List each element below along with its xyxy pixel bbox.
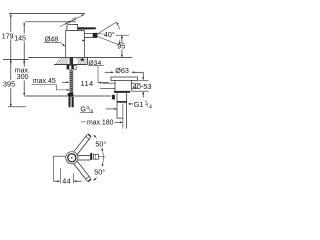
- lever tilt diagonal: [60, 15, 84, 27]
- label O34 underlined: [88, 60, 104, 67]
- dimension 145/max300 line: [23, 22, 25, 95]
- drain flange: [100, 77, 140, 91]
- plan spout rotated down: [74, 161, 91, 182]
- plan 0deg ray: [98, 156, 105, 158]
- 40 deg arc arrows: [117, 22, 120, 29]
- plan body ring: [68, 154, 76, 162]
- svg-text:395: 395: [3, 80, 15, 89]
- dimension 114: [62, 66, 109, 84]
- hose stems: [69, 97, 71, 107]
- pop-up rod boss: [112, 95, 115, 100]
- deck hatch left: [55, 58, 69, 64]
- label max180: [81, 120, 123, 127]
- svg-text:max.45: max.45: [33, 78, 56, 85]
- drain tailpipe: [117, 93, 127, 129]
- label G3/8: [80, 104, 117, 113]
- plan aerator outline: [93, 154, 98, 159]
- svg-text:40-53: 40-53: [133, 82, 152, 91]
- svg-text:Ø63: Ø63: [115, 66, 129, 75]
- svg-text:max.180: max.180: [87, 120, 114, 127]
- drain locknut: [114, 91, 130, 93]
- lever arm: [78, 27, 96, 29]
- deck right edge: [87, 57, 89, 64]
- pop-up rod through deck: [81, 59, 84, 61]
- hose end fitting: [67, 93, 73, 97]
- spout tube: [84, 33, 92, 37]
- dimension 95: [116, 35, 129, 57]
- drain body through deck: [115, 80, 132, 91]
- svg-text:114: 114: [81, 79, 94, 88]
- label G1 1/4: [128, 100, 152, 111]
- label max45 underlined: [32, 78, 70, 90]
- plan spout horizontal: [78, 156, 90, 160]
- mounting nut: [67, 65, 74, 70]
- left datum extension line: [3, 59, 29, 61]
- lever knob: [67, 25, 78, 31]
- plan spout rotated up: [74, 134, 91, 155]
- plan body outer circle: [66, 152, 78, 164]
- 40 deg horizontal ext: [97, 33, 116, 35]
- svg-text:G1: G1: [134, 100, 144, 109]
- dimension 179/395 line: [10, 14, 12, 106]
- deck bottom line: [54, 63, 88, 65]
- extension line (145 ref): [25, 21, 76, 23]
- deck hatch right: [77, 58, 87, 64]
- drain flange dimension O63: [105, 71, 144, 73]
- pipe thread band: [117, 101, 127, 103]
- svg-text:50°: 50°: [95, 139, 106, 148]
- svg-text:145: 145: [14, 36, 26, 43]
- aerator: [93, 33, 98, 38]
- dimension 44: [53, 156, 81, 183]
- svg-text:8: 8: [91, 109, 94, 114]
- threaded rod: [70, 70, 74, 93]
- plan center dot: [71, 157, 73, 159]
- extension line top (179 ref): [9, 13, 85, 15]
- svg-text:300: 300: [17, 74, 29, 81]
- label O48 underlined: [44, 35, 65, 47]
- deck top line: [28, 56, 132, 58]
- svg-text:4: 4: [149, 104, 152, 110]
- shank through deck: [70, 57, 74, 64]
- hose-end extension line: [8, 106, 26, 108]
- plan aerator cap: [90, 153, 92, 160]
- dimension 40-53: [132, 72, 149, 97]
- spout base mark: [82, 40, 84, 41]
- long reference line y96: [25, 95, 111, 97]
- svg-text:95: 95: [117, 42, 125, 51]
- svg-text:44: 44: [62, 177, 71, 186]
- faucet body: [66, 30, 85, 57]
- svg-text:40°: 40°: [104, 30, 115, 39]
- 40 degree rays: [97, 22, 119, 45]
- svg-text:50°: 50°: [94, 167, 105, 176]
- 50deg arcs upper: [94, 135, 104, 180]
- drain deck lines: [100, 83, 140, 88]
- label 40deg: [104, 30, 117, 39]
- svg-text:179: 179: [2, 34, 14, 41]
- 50deg arcs lower (merged above): [94, 177, 97, 180]
